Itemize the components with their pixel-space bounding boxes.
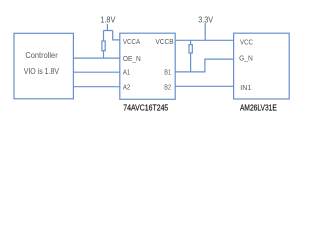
- wire 1.8V to resistor R1 top: [103, 31, 105, 42]
- resistor R1 pull-up on OE_N: [102, 41, 105, 51]
- resistor R2 pull-up on B1 net: [189, 45, 192, 53]
- wire 1.8V to VCCA pin: [113, 31, 120, 40]
- svg-text:G_N: G_N: [239, 54, 253, 63]
- svg-text:B1: B1: [164, 68, 171, 77]
- wire 3.3V net to resistor R2 top: [190, 40, 192, 44]
- svg-text:IN1: IN1: [240, 83, 251, 92]
- wire A1: controller to U1: [73, 71, 119, 73]
- wire VCCB to VCC of U2: [175, 39, 233, 41]
- wire R1 bottom to OE_N net: [103, 51, 105, 58]
- IC U1 box 74AVC16T245: [120, 33, 175, 99]
- svg-text:A1: A1: [123, 68, 130, 77]
- wire OE_N: controller to U1: [73, 57, 119, 59]
- wire A2: controller to U1: [73, 86, 119, 88]
- wire R2 bottom to B1 net: [190, 53, 192, 72]
- svg-text:B2: B2: [164, 82, 171, 91]
- svg-text:Controller: Controller: [25, 51, 58, 60]
- svg-text:VCC: VCC: [240, 37, 253, 46]
- svg-text:AM26LV31E: AM26LV31E: [240, 103, 277, 113]
- controller box: [14, 33, 73, 99]
- svg-text:VCCB: VCCB: [155, 37, 173, 46]
- svg-text:3.3V: 3.3V: [198, 15, 214, 24]
- IC U2 box AM26LV31E: [234, 33, 290, 99]
- svg-text:VCCA: VCCA: [123, 37, 140, 46]
- svg-text:1.8V: 1.8V: [100, 16, 116, 25]
- wire 3.3V rail stub: [204, 23, 206, 40]
- svg-text:A2: A2: [123, 82, 130, 91]
- wire B1 to G_N of U2: [175, 59, 233, 72]
- svg-text:VIO is 1.8V: VIO is 1.8V: [24, 67, 60, 76]
- wire 1.8V rail stub: [104, 24, 113, 31]
- svg-text:OE_N: OE_N: [123, 54, 141, 63]
- svg-text:74AVC16T245: 74AVC16T245: [123, 103, 168, 113]
- wire B2 to IN1 of U2: [175, 85, 233, 87]
